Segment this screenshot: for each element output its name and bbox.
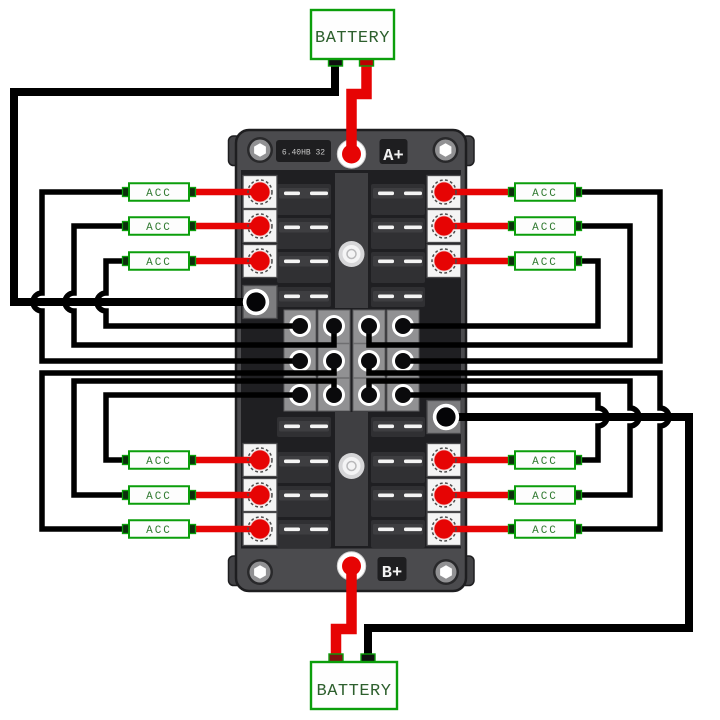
screw S4 (433, 559, 459, 585)
terminal A+ ring (337, 140, 365, 168)
fuse F15 (277, 520, 331, 548)
terminal plate R6 (427, 513, 461, 546)
terminal plate L-GND (243, 286, 277, 319)
terminal GND-L (ground stud) (243, 289, 269, 315)
wire fused feed to ACC11 (right row 495) (446, 492, 577, 499)
terminal T6 (red output stud) (248, 517, 272, 541)
svg-text:ACC: ACC (146, 257, 172, 269)
battery BT1 (311, 10, 394, 66)
svg-text:ACC: ACC (146, 222, 172, 234)
terminal T12 (red output stud) (432, 517, 456, 541)
load ACC8 (ACC) (509, 217, 582, 235)
wire ACC9 return to bus hole C2R2 (42, 361, 334, 529)
fuse F7 (277, 287, 331, 307)
terminal plate L3 (243, 245, 277, 278)
terminal plate R-GND (427, 401, 461, 434)
wire battery BT2 positive from B+ terminal (336, 570, 352, 656)
wire ACC12 return, hop over trunk, to bus hole C3R2 (369, 361, 669, 529)
fuse F12 (371, 452, 425, 483)
load ACC1 (ACC) (123, 183, 196, 201)
wire fused feed to ACC5 (left row 495) (127, 492, 258, 499)
terminal GND-R (ground stud) (433, 404, 459, 430)
fuse F4 (371, 218, 425, 249)
svg-text:BATTERY: BATTERY (317, 682, 392, 701)
load ACC12 (ACC) (509, 520, 582, 538)
terminal T7 (red output stud) (432, 180, 456, 204)
terminal T10 (red output stud) (432, 448, 456, 472)
wire ACC4 return to bus hole C4R2 (403, 192, 660, 361)
fuse F8 (371, 287, 425, 307)
wire ACC7 return to bus hole C1R3 (106, 395, 300, 460)
fuse F9 (277, 417, 331, 437)
terminal plate R5 (427, 479, 461, 512)
wire fused feed to ACC10 (right row 460) (446, 457, 577, 464)
wire battery BT1 negative to left ground terminal (14, 62, 335, 302)
load ACC4 (ACC) (123, 451, 196, 469)
terminal T1 (red output stud) (248, 180, 272, 204)
wire ACC5 return to bus hole C3R1 (369, 226, 630, 345)
load ACC7 (ACC) (509, 183, 582, 201)
bus bar strips (284, 310, 419, 411)
terminal A+ core (342, 145, 361, 164)
load ACC9 (ACC) (509, 252, 582, 270)
load ACC10 (ACC) (509, 451, 582, 469)
wire ACC10 return, hop over trunk, to bus hole C4R3 (403, 395, 607, 460)
bus hole rings (289, 315, 414, 406)
wire ACC2 return, hop over trunk, to bus hole C2R1 (65, 226, 334, 345)
terminal plate L6 (243, 513, 277, 546)
terminal T4 (red output stud) (248, 448, 272, 472)
wire ACC6 return to bus hole C4R1 (403, 261, 598, 326)
load ACC2 (ACC) (123, 217, 196, 235)
terminal plate R2 (427, 210, 461, 243)
terminal T11 (red output stud) (432, 483, 456, 507)
label plate A+ (380, 139, 408, 166)
wire fused feed to ACC12 (right row 529) (446, 526, 577, 533)
svg-text:ACC: ACC (146, 188, 172, 200)
fuse block center rail bottom (335, 412, 368, 546)
terminal plate L2 (243, 210, 277, 243)
fuse F5 (277, 252, 331, 283)
terminal plate L1 (243, 176, 277, 209)
screw S5 (339, 241, 365, 267)
screw S3 (247, 559, 273, 585)
load ACC3 (ACC) (123, 252, 196, 270)
wire ACC8 return to bus hole C2R3 (74, 381, 334, 495)
wire ACC11 return, hop over trunk, to bus hole C3R3 (369, 381, 639, 495)
bus hole cores (292, 318, 411, 403)
terminal B+ ring (337, 552, 365, 580)
fuse F16 (371, 520, 425, 548)
fuse F14 (371, 486, 425, 517)
load ACC5 (ACC) (123, 486, 196, 504)
svg-text:BATTERY: BATTERY (315, 29, 390, 48)
screw S2 (433, 137, 459, 163)
fuse F3 (277, 218, 331, 249)
terminal T3 (red output stud) (248, 249, 272, 273)
wire battery BT1 positive to A+ terminal (352, 62, 367, 150)
wire ACC1 return, hop over trunk, to bus hole C1R2 (33, 192, 300, 361)
wire fused feed to ACC4 (left row 460) (127, 457, 258, 464)
fuse block center rail top (335, 173, 368, 308)
wire fused feed to ACC9 (right row 261) (446, 258, 577, 265)
svg-text:B+: B+ (382, 564, 402, 583)
wire fused feed to ACC3 (left row 261) (127, 258, 258, 265)
wire fused feed to ACC1 (left row 192) (127, 189, 258, 196)
terminal T8 (red output stud) (432, 214, 456, 238)
screw S1 (247, 137, 273, 163)
svg-text:ACC: ACC (146, 456, 172, 468)
wire ACC3 return, hop over trunk, to bus hole C1R1 (97, 261, 300, 326)
fuse F13 (277, 486, 331, 517)
terminal T2 (red output stud) (248, 214, 272, 238)
wire battery BT2 negative to right ground terminal (368, 417, 689, 656)
svg-text:ACC: ACC (532, 491, 558, 503)
terminal T5 (red output stud) (248, 483, 272, 507)
fuse F11 (277, 452, 331, 483)
terminal plate R1 (427, 176, 461, 209)
fuse F2 (371, 184, 425, 215)
svg-text:ACC: ACC (146, 491, 172, 503)
wire fused feed to ACC8 (right row 226) (446, 223, 577, 230)
label plate model number (276, 140, 331, 162)
wire fused feed to ACC2 (left row 226) (127, 223, 258, 230)
fuse F10 (371, 417, 425, 437)
svg-text:ACC: ACC (532, 222, 558, 234)
terminal plate L5 (243, 479, 277, 512)
svg-text:A+: A+ (383, 147, 403, 166)
load ACC6 (ACC) (123, 520, 196, 538)
svg-text:ACC: ACC (532, 525, 558, 537)
terminal T9 (red output stud) (432, 249, 456, 273)
svg-text:6.40HB 32: 6.40HB 32 (282, 149, 325, 158)
screw S6 (339, 453, 365, 479)
terminal B+ core (342, 557, 361, 576)
fuse F1 (277, 184, 331, 215)
wire fused feed to ACC6 (left row 529) (127, 526, 258, 533)
battery BT2 (311, 654, 397, 709)
fuse block FB1 housing (229, 130, 475, 591)
svg-text:ACC: ACC (532, 257, 558, 269)
fuse F6 (371, 252, 425, 283)
terminal plate R3 (427, 245, 461, 278)
svg-text:ACC: ACC (146, 525, 172, 537)
terminal plate L4 (243, 444, 277, 477)
wire fused feed to ACC7 (right row 192) (446, 189, 577, 196)
load ACC11 (ACC) (509, 486, 582, 504)
svg-text:ACC: ACC (532, 188, 558, 200)
terminal plate R4 (427, 444, 461, 477)
label plate B+ (378, 557, 407, 583)
svg-text:ACC: ACC (532, 456, 558, 468)
